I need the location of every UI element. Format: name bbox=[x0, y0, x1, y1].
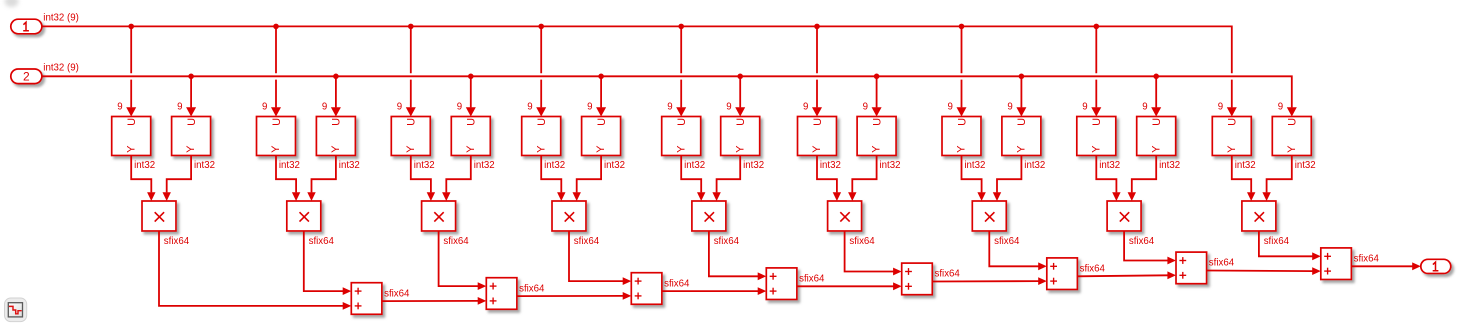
wire tap from In2 bus down to selector S5b bbox=[739, 76, 741, 107]
svg-text:Y: Y bbox=[956, 145, 968, 153]
svg-text:U: U bbox=[1016, 118, 1028, 126]
wire selector S2a to product P2 input 1 bbox=[276, 156, 296, 193]
wire product P8 to adder A7 upper input bbox=[1124, 231, 1168, 261]
wire tap from In1 bus down to selector S3a (gap crossing In2 bus) bbox=[410, 26, 412, 107]
wire product P4 to adder A3 upper input bbox=[569, 231, 623, 281]
svg-text:sfix64: sfix64 bbox=[309, 236, 335, 247]
junction dot on In1 bus at tap 2 bbox=[273, 24, 279, 30]
svg-text:9: 9 bbox=[457, 102, 462, 113]
svg-text:U: U bbox=[676, 118, 688, 126]
svg-text:int32: int32 bbox=[1235, 160, 1256, 171]
wire selector S5a to product P5 input 1 bbox=[681, 156, 701, 193]
svg-text:Y: Y bbox=[125, 145, 137, 153]
wire selector S1a to product P1 input 1 bbox=[131, 156, 151, 193]
product block P5 (multiply) bbox=[692, 201, 726, 231]
svg-text:sfix64: sfix64 bbox=[1264, 236, 1290, 247]
wire tap from In2 bus down to selector S4b bbox=[600, 76, 602, 107]
wire product P1 to adder A1 lower input bbox=[159, 231, 343, 306]
wire product P2 to adder A1 upper input bbox=[304, 231, 343, 291]
svg-text:sfix64: sfix64 bbox=[1354, 254, 1380, 265]
wire adder A7 output to adder A8 lower input bbox=[1207, 270, 1313, 273]
arrowhead into selector S1b bbox=[186, 107, 196, 116]
wire adder A1 output to adder A2 lower input bbox=[382, 300, 478, 302]
junction dot on In2 bus at tap 8 bbox=[1153, 74, 1159, 80]
canvas top-left faint smudge bbox=[5, 0, 19, 7]
svg-text:Y: Y bbox=[811, 145, 823, 153]
svg-text:U: U bbox=[186, 118, 198, 126]
svg-text:9: 9 bbox=[1142, 102, 1147, 113]
wire In1 bus (horizontal, ends turning down to selector S9a) bbox=[42, 26, 1232, 107]
svg-text:Y: Y bbox=[405, 145, 417, 153]
svg-text:Y: Y bbox=[595, 145, 607, 153]
arrowhead into adder A6 lower input bbox=[1038, 277, 1047, 285]
junction dot on In1 bus at tap 3 bbox=[408, 24, 414, 30]
junction dot on In2 bus at tap 2 bbox=[333, 74, 339, 80]
svg-text:U: U bbox=[812, 118, 824, 126]
selector block S5a bbox=[662, 117, 701, 156]
svg-text:int32: int32 bbox=[1159, 160, 1180, 171]
svg-text:sfix64: sfix64 bbox=[1129, 236, 1155, 247]
arrowhead into adder A1 upper input bbox=[343, 287, 352, 295]
arrowhead into selector S6a bbox=[812, 107, 822, 116]
arrowhead into product P7 input 2 bbox=[993, 192, 1001, 201]
arrowhead into product P4 input 1 bbox=[557, 192, 565, 201]
arrowhead into adder A1 lower input bbox=[343, 302, 352, 310]
selector block S9a bbox=[1212, 117, 1251, 156]
wire selector S1b to product P1 input 2 bbox=[167, 156, 191, 193]
selector block S1a bbox=[112, 117, 151, 156]
junction dot on In1 bus at tap 5 bbox=[678, 24, 684, 30]
junction dot on In2 bus at tap 4 bbox=[598, 74, 604, 80]
adder block A6 (sum ++) bbox=[1047, 258, 1078, 290]
svg-text:Y: Y bbox=[1286, 145, 1298, 153]
arrowhead into product P3 input 1 bbox=[427, 192, 435, 201]
arrowhead into adder A5 upper input bbox=[893, 268, 902, 276]
svg-text:9: 9 bbox=[117, 102, 122, 113]
arrowhead into adder A4 lower input bbox=[758, 287, 767, 295]
wire selector S8b to product P8 input 2 bbox=[1132, 156, 1156, 193]
product block P4 (multiply) bbox=[552, 201, 586, 231]
inport 1 (In1) bbox=[11, 19, 42, 34]
svg-text:sfix64: sfix64 bbox=[519, 283, 545, 294]
svg-text:int32: int32 bbox=[134, 160, 155, 171]
arrowhead into product P5 input 2 bbox=[712, 192, 720, 201]
wire tap from In2 bus down to selector S6b bbox=[876, 76, 878, 107]
arrowhead into selector S4b bbox=[596, 107, 606, 116]
wire tap from In2 bus down to selector S1b bbox=[190, 76, 192, 107]
arrowhead into product P2 input 1 bbox=[292, 192, 300, 201]
adder block A4 (sum ++) bbox=[766, 268, 797, 300]
product block P8 (multiply) bbox=[1107, 201, 1141, 231]
wire selector S7a to product P7 input 1 bbox=[962, 156, 982, 193]
arrowhead into selector S9b bbox=[1287, 107, 1297, 116]
selector block S8b bbox=[1137, 117, 1176, 156]
selector block S2b bbox=[316, 117, 355, 156]
svg-text:9: 9 bbox=[262, 102, 267, 113]
junction dot on In2 bus at tap 5 bbox=[737, 74, 743, 80]
svg-text:U: U bbox=[331, 118, 343, 126]
wire selector S2b to product P2 input 2 bbox=[312, 156, 336, 193]
arrowhead into adder A2 upper input bbox=[478, 282, 487, 290]
wire tap from In1 bus down to selector S1a (gap crossing In2 bus) bbox=[130, 26, 132, 107]
svg-text:U: U bbox=[735, 118, 747, 126]
selector block S5b bbox=[721, 117, 760, 156]
svg-text:int32: int32 bbox=[1024, 160, 1045, 171]
svg-text:U: U bbox=[271, 118, 283, 126]
svg-text:int32: int32 bbox=[1295, 160, 1316, 171]
selector block S6a bbox=[798, 117, 837, 156]
svg-text:int32: int32 bbox=[414, 160, 435, 171]
product block P2 (multiply) bbox=[287, 201, 321, 231]
junction dot on In1 bus at tap 6 bbox=[814, 24, 820, 30]
svg-text:int32: int32 bbox=[544, 160, 565, 171]
svg-text:int32: int32 bbox=[684, 160, 705, 171]
outport 1 (Out1) bbox=[1421, 259, 1451, 273]
arrowhead into selector S7a bbox=[957, 107, 967, 116]
svg-text:Y: Y bbox=[185, 145, 197, 153]
selector block S1b bbox=[172, 117, 211, 156]
wire selector S8a to product P8 input 1 bbox=[1096, 156, 1116, 193]
junction dot on In1 bus at tap 8 bbox=[1094, 24, 1100, 30]
selector block S9b bbox=[1272, 117, 1311, 156]
arrowhead into selector S5b bbox=[735, 107, 745, 116]
wire tap from In1 bus down to selector S8a (gap crossing In2 bus) bbox=[1095, 26, 1097, 107]
svg-text:sfix64: sfix64 bbox=[935, 269, 961, 280]
svg-text:9: 9 bbox=[587, 102, 592, 113]
svg-text:sfix64: sfix64 bbox=[849, 236, 875, 247]
wire product P9 to adder A8 upper input bbox=[1259, 231, 1313, 256]
selector block S4b bbox=[582, 117, 621, 156]
svg-text:9: 9 bbox=[667, 102, 672, 113]
svg-text:U: U bbox=[596, 118, 608, 126]
svg-text:sfix64: sfix64 bbox=[799, 274, 825, 285]
arrowhead into product P1 input 2 bbox=[163, 192, 171, 201]
selector block S8a bbox=[1077, 117, 1116, 156]
arrowhead into product P8 input 1 bbox=[1112, 192, 1120, 201]
arrowhead into product P9 input 2 bbox=[1262, 192, 1270, 201]
svg-text:9: 9 bbox=[177, 102, 182, 113]
svg-text:9: 9 bbox=[527, 102, 532, 113]
junction dot on In1 bus at tap 4 bbox=[538, 24, 544, 30]
arrowhead into product P7 input 1 bbox=[977, 192, 985, 201]
arrowhead into selector S2b bbox=[331, 107, 341, 116]
arrowhead into adder A4 upper input bbox=[758, 272, 767, 280]
arrowhead into product P1 input 1 bbox=[147, 192, 155, 201]
arrowhead into selector S2a bbox=[271, 107, 281, 116]
arrowhead into selector S4a bbox=[536, 107, 546, 116]
arrowhead into product P4 input 2 bbox=[573, 192, 581, 201]
selector block S7a bbox=[942, 117, 981, 156]
svg-text:9: 9 bbox=[1278, 102, 1283, 113]
selector block S3a bbox=[391, 117, 430, 156]
selector block S4a bbox=[522, 117, 561, 156]
arrowhead into adder A2 lower input bbox=[478, 297, 487, 305]
wire tap from In2 bus down to selector S8b bbox=[1155, 76, 1157, 107]
arrowhead into product P6 input 2 bbox=[848, 192, 856, 201]
svg-text:int32: int32 bbox=[279, 160, 300, 171]
wire tap from In2 bus down to selector S3b bbox=[470, 76, 472, 107]
wire product P7 to adder A6 upper input bbox=[989, 231, 1038, 266]
svg-text:int32: int32 bbox=[820, 160, 841, 171]
svg-text:U: U bbox=[1227, 118, 1239, 126]
selector block S6b bbox=[857, 117, 896, 156]
wire tap from In1 bus down to selector S2a (gap crossing In2 bus) bbox=[275, 26, 277, 107]
svg-text:sfix64: sfix64 bbox=[994, 236, 1020, 247]
wire tap from In1 bus down to selector S4a (gap crossing In2 bus) bbox=[540, 26, 542, 107]
svg-text:Y: Y bbox=[1226, 145, 1238, 153]
svg-text:U: U bbox=[406, 118, 418, 126]
arrowhead into selector S6b bbox=[872, 107, 882, 116]
svg-text:sfix64: sfix64 bbox=[164, 236, 190, 247]
svg-text:U: U bbox=[871, 118, 883, 126]
wire selector S5b to product P5 input 2 bbox=[717, 156, 741, 193]
svg-text:sfix64: sfix64 bbox=[1209, 258, 1235, 269]
svg-text:U: U bbox=[1151, 118, 1163, 126]
arrowhead into adder A7 upper input bbox=[1167, 257, 1176, 265]
product block P6 (multiply) bbox=[828, 201, 862, 231]
arrowhead into selector S1a bbox=[126, 107, 136, 116]
adder block A1 (sum ++) bbox=[351, 283, 382, 315]
wire selector S4a to product P4 input 1 bbox=[541, 156, 561, 193]
arrowhead into selector S3b bbox=[466, 107, 476, 116]
svg-text:Y: Y bbox=[465, 145, 477, 153]
selector block S3b bbox=[451, 117, 490, 156]
wire selector S3a to product P3 input 1 bbox=[411, 156, 431, 193]
wire selector S9b to product P9 input 2 bbox=[1267, 156, 1292, 193]
wire tap from In1 bus down to selector S7a (gap crossing In2 bus) bbox=[961, 26, 963, 107]
svg-text:9: 9 bbox=[1218, 102, 1223, 113]
svg-text:9: 9 bbox=[397, 102, 402, 113]
svg-text:int32: int32 bbox=[743, 160, 764, 171]
svg-text:Y: Y bbox=[330, 145, 342, 153]
svg-text:U: U bbox=[956, 118, 968, 126]
junction dot on In2 bus at tap 7 bbox=[1019, 74, 1025, 80]
product block P7 (multiply) bbox=[972, 201, 1006, 231]
junction dot on In2 bus at tap 3 bbox=[468, 74, 474, 80]
svg-text:9: 9 bbox=[948, 102, 953, 113]
adder block A7 (sum ++) bbox=[1176, 252, 1207, 284]
arrowhead into product P8 input 2 bbox=[1128, 192, 1136, 201]
arrowhead into product P9 input 1 bbox=[1247, 192, 1255, 201]
arrowhead into adder A3 upper input bbox=[623, 277, 632, 285]
svg-text:Y: Y bbox=[535, 145, 547, 153]
inport 2 (In2) bbox=[11, 69, 42, 84]
svg-text:Y: Y bbox=[871, 145, 883, 153]
junction dot on In1 bus at tap 7 bbox=[959, 24, 965, 30]
svg-text:2: 2 bbox=[23, 70, 30, 84]
wire selector S6a to product P6 input 1 bbox=[817, 156, 837, 193]
svg-text:int32: int32 bbox=[194, 160, 215, 171]
arrowhead into adder A8 upper input bbox=[1312, 252, 1321, 260]
wire product P6 to adder A5 upper input bbox=[845, 231, 894, 272]
svg-text:int32: int32 bbox=[964, 160, 985, 171]
svg-text:Y: Y bbox=[675, 145, 687, 153]
arrowhead into product P2 input 2 bbox=[307, 192, 315, 201]
arrowhead into selector S3a bbox=[406, 107, 416, 116]
wire selector S4b to product P4 input 2 bbox=[577, 156, 601, 193]
svg-text:sfix64: sfix64 bbox=[384, 288, 410, 299]
wire adder A5 output to adder A6 lower input bbox=[932, 280, 1038, 282]
adder block A3 (sum ++) bbox=[631, 273, 662, 305]
junction dot on In2 bus at tap 1 bbox=[188, 74, 194, 80]
svg-text:U: U bbox=[1091, 118, 1103, 126]
wire tap from In1 bus down to selector S5a (gap crossing In2 bus) bbox=[680, 26, 682, 107]
svg-text:int32: int32 bbox=[339, 160, 360, 171]
arrowhead into adder A5 lower input bbox=[893, 282, 902, 290]
svg-text:U: U bbox=[1287, 118, 1299, 126]
svg-text:sfix64: sfix64 bbox=[1080, 264, 1106, 275]
svg-text:Y: Y bbox=[1150, 145, 1162, 153]
wire tap from In1 bus down to selector S6a (gap crossing In2 bus) bbox=[816, 26, 818, 107]
wire selector S3b to product P3 input 2 bbox=[446, 156, 471, 193]
wire selector S6b to product P6 input 2 bbox=[852, 156, 876, 193]
svg-text:9: 9 bbox=[863, 102, 868, 113]
product block P1 (multiply) bbox=[142, 201, 176, 231]
arrowhead into outport Out1 bbox=[1412, 262, 1421, 270]
product block P3 (multiply) bbox=[422, 201, 456, 231]
svg-text:int32: int32 bbox=[1099, 160, 1120, 171]
wire selector S9a to product P9 input 1 bbox=[1232, 156, 1251, 193]
adder block A8 (sum ++) bbox=[1321, 248, 1352, 280]
wire adder A8 output to outport Out1 bbox=[1351, 265, 1414, 267]
selector block S7b bbox=[1002, 117, 1041, 156]
arrowhead into selector S5a bbox=[676, 107, 686, 116]
wire In2 bus (horizontal, ends turning down to selector S9b) bbox=[42, 76, 1292, 107]
svg-text:9: 9 bbox=[726, 102, 731, 113]
wire adder A2 output to adder A3 lower input bbox=[517, 295, 623, 297]
svg-text:int32 (9): int32 (9) bbox=[43, 13, 79, 24]
svg-text:9: 9 bbox=[322, 102, 327, 113]
svg-text:9: 9 bbox=[1082, 102, 1087, 113]
selector block S2a bbox=[257, 117, 296, 156]
arrowhead into selector S7b bbox=[1016, 107, 1026, 116]
svg-text:Y: Y bbox=[1015, 145, 1027, 153]
arrowhead into selector S8a bbox=[1091, 107, 1101, 116]
svg-text:Y: Y bbox=[1090, 145, 1102, 153]
svg-text:int32: int32 bbox=[604, 160, 625, 171]
wire selector S7b to product P7 input 2 bbox=[997, 156, 1021, 193]
product block P9 (multiply) bbox=[1242, 201, 1276, 231]
wire adder A6 output to adder A7 lower input bbox=[1077, 275, 1167, 276]
svg-text:sfix64: sfix64 bbox=[664, 278, 690, 289]
svg-text:sfix64: sfix64 bbox=[443, 236, 469, 247]
svg-text:Y: Y bbox=[734, 145, 746, 153]
svg-text:int32: int32 bbox=[880, 160, 901, 171]
svg-text:sfix64: sfix64 bbox=[574, 236, 600, 247]
wire product P3 to adder A2 upper input bbox=[439, 231, 479, 286]
wire tap from In2 bus down to selector S2b bbox=[335, 76, 337, 107]
svg-text:9: 9 bbox=[803, 102, 808, 113]
adder block A5 (sum ++) bbox=[902, 263, 933, 295]
wire adder A3 output to adder A4 lower input bbox=[662, 290, 758, 292]
wire product P5 to adder A4 upper input bbox=[709, 231, 758, 276]
arrowhead into adder A7 lower input bbox=[1167, 271, 1176, 279]
arrowhead into adder A6 upper input bbox=[1038, 262, 1047, 270]
svg-text:int32 (9): int32 (9) bbox=[43, 63, 79, 74]
arrowhead into product P3 input 2 bbox=[442, 192, 450, 201]
arrowhead into product P5 input 1 bbox=[697, 192, 705, 201]
svg-text:U: U bbox=[536, 118, 548, 126]
arrowhead into product P6 input 1 bbox=[833, 192, 841, 201]
wire tap from In2 bus down to selector S7b bbox=[1020, 76, 1022, 107]
svg-text:sfix64: sfix64 bbox=[714, 236, 740, 247]
svg-text:int32: int32 bbox=[474, 160, 495, 171]
arrowhead into adder A8 lower input bbox=[1312, 267, 1321, 275]
junction dot on In1 bus at tap 1 bbox=[128, 24, 134, 30]
svg-text:9: 9 bbox=[1007, 102, 1012, 113]
svg-text:U: U bbox=[466, 118, 478, 126]
wire adder A4 output to adder A5 lower input bbox=[797, 285, 894, 287]
svg-text:Y: Y bbox=[270, 145, 282, 153]
junction dot on In2 bus at tap 6 bbox=[874, 74, 880, 80]
adder block A2 (sum ++) bbox=[486, 278, 517, 310]
arrowhead into adder A3 lower input bbox=[623, 292, 632, 300]
canvas corner badge (signal stairs button) bbox=[5, 298, 27, 322]
arrowhead into selector S9a bbox=[1227, 107, 1237, 116]
svg-text:U: U bbox=[126, 118, 138, 126]
arrowhead into selector S8b bbox=[1151, 107, 1161, 116]
